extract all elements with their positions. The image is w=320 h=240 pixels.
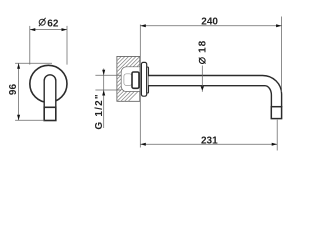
- dim 96: extension lines: [15, 62, 52, 64]
- flange plate side: [141, 62, 146, 96]
- thread nut G 1/2: [132, 72, 139, 88]
- dim 240: dimension line: [140, 25, 281, 27]
- dim d62: text: [39, 18, 59, 30]
- dim d18: text: [197, 40, 208, 64]
- spout end cap side: [271, 107, 281, 119]
- inlet pipe in wall: [124, 74, 132, 86]
- dim 96: dimension line: [18, 63, 20, 120]
- dim G 1/2: dimension line with outside arrows: [103, 69, 105, 129]
- dim d62: dimension line: [30, 29, 67, 31]
- svg-text:231: 231: [201, 136, 218, 147]
- wall clearance slot: [121, 67, 140, 92]
- svg-text:240: 240: [201, 17, 218, 28]
- dim d18: leader line: [201, 66, 203, 92]
- wall face line / 240 left extension: [139, 25, 141, 148]
- flange circle: [30, 65, 67, 102]
- svg-text:18: 18: [197, 40, 208, 53]
- dim 240: right extension line: [281, 17, 283, 93]
- spout tube side with bend: [149, 76, 282, 107]
- dim 231: right extension line: [276, 120, 278, 151]
- dim G 1/2: extension lines: [95, 74, 121, 76]
- svg-text:G 1/2": G 1/2": [94, 93, 105, 129]
- dim 231: dimension line: [140, 143, 277, 145]
- dim d62: extension lines: [29, 26, 31, 65]
- svg-text:96: 96: [8, 84, 19, 96]
- flange collar side: [147, 67, 149, 93]
- spout tube front: [44, 75, 56, 108]
- svg-text:62: 62: [47, 18, 59, 29]
- spout end cap front: [44, 107, 56, 120]
